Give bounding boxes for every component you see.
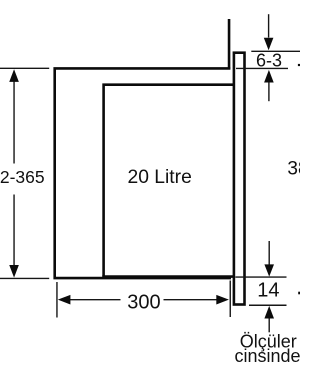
svg-text:cinsinden: cinsinden [235,346,301,366]
svg-text:382: 382 [287,159,300,180]
svg-text:14: 14 [257,280,279,302]
svg-text:6-3: 6-3 [256,51,282,71]
svg-text:20 Litre: 20 Litre [128,167,192,188]
svg-text:362-365: 362-365 [0,167,45,187]
svg-text:300: 300 [127,292,160,314]
